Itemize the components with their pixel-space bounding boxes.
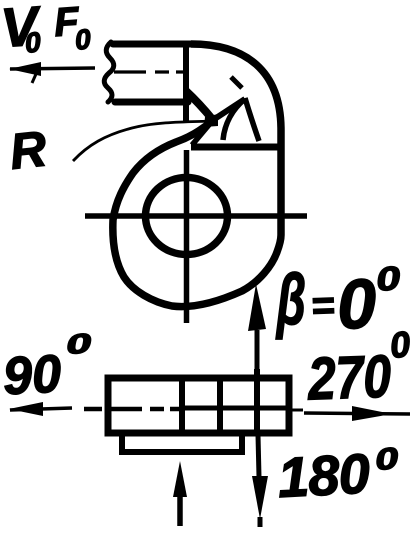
base centerline right bbox=[184, 406, 286, 411]
duct break edge bbox=[104, 42, 114, 102]
arrow 90deg (left) bbox=[9, 402, 72, 416]
duct (outlet pipe, top) bbox=[104, 42, 191, 102]
base block step rectangle bbox=[122, 434, 242, 452]
svg-text:0: 0 bbox=[65, 328, 93, 360]
tongue line to wedge apex bbox=[213, 99, 245, 120]
svg-text:0: 0 bbox=[74, 23, 93, 55]
base divider 2 bbox=[217, 378, 223, 433]
tongue junction blob bbox=[204, 114, 218, 127]
elbow inner wall bbox=[186, 91, 213, 120]
inlet circle bbox=[146, 178, 228, 255]
centerline horizontal bbox=[85, 213, 307, 219]
beta arrow (up, at volute bottom) bbox=[248, 284, 266, 378]
base divider 1 bbox=[179, 378, 185, 433]
arrow up at base bottom bbox=[173, 461, 187, 526]
svg-text:270: 270 bbox=[306, 343, 392, 413]
centerline vertical bbox=[184, 150, 190, 323]
arrow 270deg (right) bbox=[304, 406, 410, 421]
duct centerline (dashed) bbox=[114, 70, 184, 73]
base centerline right outside bbox=[291, 409, 303, 412]
wire duct bottom line bbox=[115, 99, 188, 106]
svg-text:0: 0 bbox=[336, 264, 378, 343]
svg-text:β: β bbox=[275, 259, 306, 339]
svg-text:0: 0 bbox=[388, 323, 412, 366]
duct right edge / vertical bbox=[183, 41, 189, 121]
label V0 F0 bbox=[0, 0, 92, 59]
base block outer rectangle bbox=[108, 378, 289, 433]
svg-text:0: 0 bbox=[24, 26, 43, 58]
svg-text:R: R bbox=[7, 120, 49, 179]
volute scroll outline (spiral) bbox=[113, 120, 281, 307]
elbow centerline dash bbox=[231, 77, 242, 88]
arrow V0 (flow direction, pointing left) bbox=[9, 62, 95, 83]
volute top cut line bbox=[191, 144, 282, 151]
base centerline dashed left bbox=[84, 407, 180, 412]
svg-text:90: 90 bbox=[2, 344, 63, 406]
svg-text:0: 0 bbox=[374, 259, 403, 298]
label beta=0deg bbox=[275, 259, 403, 344]
arrow down 180deg bbox=[252, 435, 268, 527]
label 270deg bbox=[306, 323, 412, 412]
tongue diagonal bbox=[192, 120, 213, 145]
elbow outer wall bbox=[191, 44, 281, 152]
wire duct top line bbox=[113, 41, 191, 48]
base divider 3 / beta line through base bbox=[254, 369, 260, 434]
svg-text:=: = bbox=[310, 284, 335, 329]
svg-text:0: 0 bbox=[373, 442, 400, 477]
label 90deg bbox=[2, 328, 93, 407]
svg-text:180: 180 bbox=[276, 441, 371, 509]
label 180deg bbox=[276, 441, 400, 509]
wedge arc bbox=[223, 99, 245, 140]
leader line R bbox=[73, 121, 212, 161]
wedge right side bbox=[245, 98, 259, 141]
